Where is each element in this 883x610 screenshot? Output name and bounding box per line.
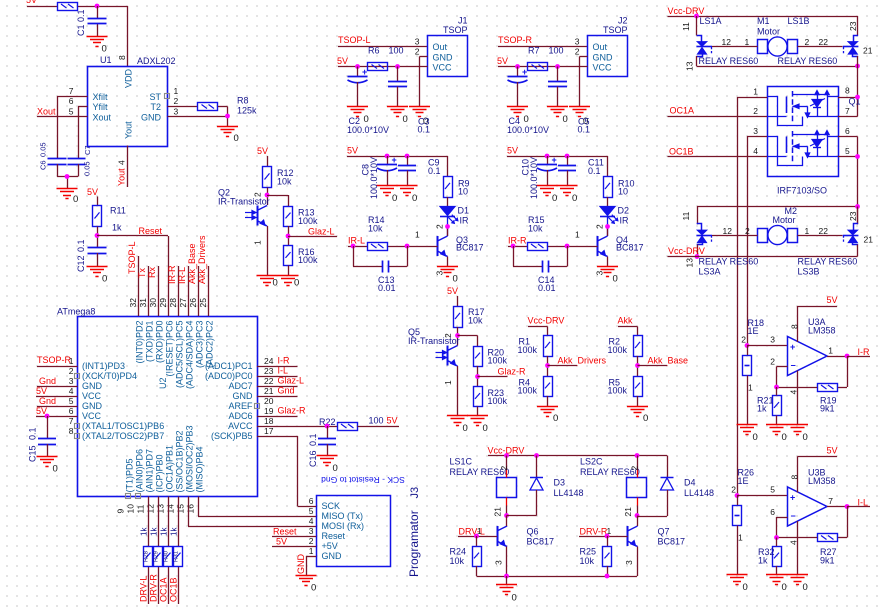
wire TSOP-R to J2 pin3: [498, 46, 588, 48]
svg-text:DRV-L: DRV-L: [139, 576, 149, 602]
svg-text:1: 1: [745, 37, 750, 47]
svg-text:2: 2: [309, 536, 314, 546]
svg-text:BC817: BC817: [616, 243, 644, 253]
svg-text:10: 10: [126, 504, 136, 514]
svg-text:5V: 5V: [337, 56, 348, 66]
svg-text:1: 1: [415, 230, 420, 240]
svg-text:25: 25: [198, 298, 208, 308]
svg-text:R31: R31: [174, 550, 180, 562]
svg-text:(OC1A)PB1: (OC1A)PB1: [165, 445, 175, 493]
node junction Akk_Drivers: [545, 363, 550, 368]
svg-text:3: 3: [69, 376, 74, 386]
svg-text:TSOP-R: TSOP-R: [498, 35, 533, 45]
svg-text:LM358: LM358: [808, 476, 836, 486]
ground Q4: [597, 266, 618, 268]
svg-text:100: 100: [389, 46, 404, 56]
svg-text:2: 2: [770, 357, 775, 367]
svg-text:Glaz-R: Glaz-R: [498, 367, 527, 377]
resistor R22: [338, 423, 358, 431]
ground C1: [87, 36, 108, 38]
svg-text:5: 5: [309, 506, 314, 516]
svg-text:LS2C: LS2C: [580, 457, 603, 467]
svg-text:10k: 10k: [528, 224, 543, 234]
op-amp U3A LM358: [788, 337, 828, 376]
svg-text:0: 0: [273, 278, 278, 289]
svg-text:23: 23: [848, 21, 858, 31]
svg-text:5V: 5V: [447, 286, 458, 296]
svg-text:ADC7: ADC7: [228, 381, 252, 391]
svg-text:20: 20: [264, 396, 274, 406]
svg-text:2: 2: [575, 47, 580, 57]
svg-text:0: 0: [294, 278, 299, 289]
wire Q1 pin7 stub: [838, 116, 858, 118]
svg-text:18: 18: [264, 416, 274, 426]
svg-text:0: 0: [453, 274, 458, 285]
svg-text:5V: 5V: [257, 146, 268, 156]
svg-text:RELAY RES60: RELAY RES60: [778, 56, 838, 66]
resistor R30 1k: [164, 547, 173, 567]
svg-text:J2: J2: [618, 16, 628, 26]
svg-text:LL4148: LL4148: [684, 488, 714, 498]
svg-text:ATmega8: ATmega8: [57, 307, 95, 317]
svg-text:Reset: Reset: [273, 527, 297, 537]
ground C15: [37, 456, 58, 458]
svg-text:0: 0: [743, 582, 748, 593]
wire 5V rail R10 block: [507, 156, 608, 158]
wire 5V to R17: [457, 296, 459, 306]
svg-text:1E: 1E: [738, 476, 749, 486]
svg-text:23: 23: [264, 366, 274, 376]
svg-text:1k: 1k: [140, 527, 149, 536]
svg-text:Glaz-L: Glaz-L: [278, 376, 305, 386]
svg-text:17: 17: [264, 426, 274, 436]
svg-text:14: 14: [166, 504, 176, 514]
svg-text:3: 3: [770, 335, 775, 345]
wire R12 to Q2 collector: [267, 188, 269, 206]
svg-text:2: 2: [731, 485, 736, 495]
svg-text:DRV-R: DRV-R: [149, 574, 159, 602]
svg-text:BC817: BC817: [456, 243, 484, 253]
node junction D2 cathode: [605, 224, 610, 229]
wire ATmega8 pin3 GND: [37, 386, 78, 388]
wire ATmega8 top pin 27: [188, 266, 190, 316]
ground J3: [296, 575, 317, 577]
svg-text:ADXL202: ADXL202: [137, 56, 176, 66]
svg-text:Reset: Reset: [322, 531, 346, 541]
transistor Q3 BC817: [437, 236, 439, 256]
node junction C1: [95, 4, 100, 9]
wire DRV-R to base: [579, 536, 628, 538]
pad ATmega8 pin20 AREF: [255, 404, 260, 409]
svg-text:100: 100: [549, 46, 564, 56]
wire ATmega8 pin24 I-R: [257, 366, 298, 368]
svg-text:(TXD)PD1: (TXD)PD1: [145, 321, 155, 363]
transistor Q7 BC817: [627, 526, 629, 546]
svg-text:(XCK/T0)PD4: (XCK/T0)PD4: [82, 371, 137, 381]
svg-text:IR-L: IR-L: [348, 236, 365, 246]
svg-text:3: 3: [595, 271, 605, 276]
wire ATmega8 top pin 29: [168, 236, 170, 316]
svg-text:0.1: 0.1: [76, 239, 86, 252]
svg-text:VCC: VCC: [82, 391, 102, 401]
svg-text:26: 26: [188, 298, 198, 308]
wire Q6 collector: [506, 516, 508, 527]
node junction D1 cathode: [445, 224, 450, 229]
svg-text:LL4148: LL4148: [554, 488, 584, 498]
svg-text:28: 28: [168, 298, 178, 308]
wire R24 bottom: [476, 566, 478, 576]
svg-text:100k: 100k: [298, 216, 318, 226]
wire J3 +5V: [272, 546, 316, 548]
svg-text:3: 3: [309, 526, 314, 536]
wire 5V rail R9 block: [347, 156, 448, 158]
resistor R27 feedback: [818, 534, 838, 542]
svg-text:100k: 100k: [518, 386, 538, 396]
svg-text:(SCK)PB5: (SCK)PB5: [211, 431, 253, 441]
svg-text:AVCC: AVCC: [228, 421, 253, 431]
wire C14 loop: [513, 246, 515, 267]
wire ATmega8 pin 14 to OC1B: [178, 497, 180, 547]
wire feedback to inverting input: [777, 387, 818, 389]
svg-text:Q7: Q7: [658, 527, 670, 537]
svg-text:0.01: 0.01: [378, 283, 396, 293]
svg-text:7: 7: [69, 416, 74, 426]
svg-text:R30: R30: [164, 550, 170, 562]
svg-text:0.1: 0.1: [28, 427, 38, 440]
wire pin6 rail down to M2: [857, 137, 859, 225]
node junction Q5 collector: [455, 333, 460, 338]
svg-text:5V: 5V: [87, 187, 98, 197]
svg-text:0: 0: [392, 193, 397, 204]
svg-text:C7: C7: [83, 145, 92, 155]
svg-text:J3: J3: [409, 487, 421, 499]
svg-text:0: 0: [613, 274, 618, 285]
svg-text:TSOP-L: TSOP-L: [338, 35, 371, 45]
svg-text:3: 3: [575, 37, 580, 47]
node junction IR-R left: [511, 244, 516, 249]
svg-text:M1: M1: [757, 16, 770, 26]
resistor R26 body: [733, 506, 742, 526]
svg-text:DRV-R: DRV-R: [580, 527, 608, 537]
wire Vcc-DRV top rail: [668, 16, 858, 18]
svg-text:(XTAL1/TOSC1)PB6: (XTAL1/TOSC1)PB6: [82, 421, 164, 431]
svg-text:R24: R24: [450, 547, 467, 557]
svg-text:U2: U2: [158, 377, 168, 389]
wire R22 to 5V: [358, 426, 400, 428]
svg-text:1k: 1k: [112, 223, 122, 233]
svg-text:Akk_Drivers: Akk_Drivers: [197, 235, 207, 284]
wire M2 top rail: [697, 206, 858, 208]
ground R32: [766, 574, 787, 576]
resistor R6: [368, 63, 388, 71]
svg-text:1: 1: [69, 356, 74, 366]
svg-text:7: 7: [828, 496, 833, 506]
svg-text:10: 10: [618, 187, 628, 197]
wire R20 to R23: [477, 366, 479, 387]
wire Akk to R2: [618, 326, 638, 328]
svg-text:R29: R29: [154, 550, 160, 562]
node junction inverting: [774, 385, 779, 390]
svg-text:3: 3: [624, 560, 634, 565]
connector J2 TSOP box: [588, 36, 628, 77]
wire ATmega8 pin15 MOSI to J3: [188, 497, 190, 527]
svg-text:(XTAL2/TOSC2)PB7: (XTAL2/TOSC2)PB7: [82, 431, 164, 441]
svg-text:0: 0: [403, 114, 408, 125]
wire TSOP-L to J1 pin3: [338, 46, 428, 48]
svg-text:+: +: [790, 342, 795, 352]
wire LS1A to M1: [712, 46, 758, 48]
wire Q3 collector stub: [447, 236, 449, 238]
wire Q1 pin6 stub: [838, 136, 858, 138]
node junction C6 C7: [65, 174, 70, 179]
diode D1 IR LED: [440, 207, 455, 216]
svg-text:(SS/OC1B)PB2: (SS/OC1B)PB2: [175, 430, 185, 492]
op-amp U1 ADXL202 box: [88, 67, 168, 147]
wire feedback U3A: [847, 356, 849, 387]
svg-text:Yfilt: Yfilt: [93, 102, 109, 112]
transistor Q4 BC817: [597, 236, 599, 256]
wire Q4 emitter to ground: [607, 257, 609, 267]
svg-text:0.1: 0.1: [428, 166, 441, 176]
svg-text:9: 9: [116, 509, 126, 514]
svg-text:T2: T2: [150, 102, 161, 112]
svg-text:2: 2: [499, 466, 509, 471]
wire R5 to ground: [637, 396, 639, 406]
ground C2: [347, 106, 368, 108]
resistor R19 feedback: [818, 384, 838, 392]
svg-text:LS1A: LS1A: [700, 16, 722, 26]
wire R16 to ground: [288, 266, 290, 276]
mosfet internal half 1: [767, 97, 778, 117]
svg-text:11: 11: [136, 504, 146, 513]
wire D1 to Q3 collector: [447, 216, 449, 236]
diode D2 IR LED: [600, 207, 615, 216]
node junction LS3A Vcc: [695, 254, 700, 259]
svg-text:4: 4: [69, 386, 74, 396]
svg-text:29: 29: [158, 298, 168, 308]
node junction base: [565, 244, 570, 249]
svg-text:OC1A: OC1A: [670, 106, 695, 116]
svg-text:Akk_Base: Akk_Base: [648, 356, 689, 366]
wire 5V to R11: [97, 197, 99, 206]
svg-text:Glaz-R: Glaz-R: [278, 406, 307, 416]
wire OC1B to pin4: [668, 156, 768, 158]
wire 5V rail J2: [498, 66, 588, 68]
connector J1 TSOP box: [428, 36, 468, 77]
svg-text:Akk_Drivers: Akk_Drivers: [558, 356, 607, 366]
wire M2 to LS3B: [798, 235, 843, 237]
svg-text:IR-Transistor: IR-Transistor: [408, 336, 460, 346]
svg-text:SCK: SCK: [322, 501, 341, 511]
svg-text:21: 21: [864, 235, 874, 245]
svg-text:125k: 125k: [237, 106, 257, 116]
ground R16: [278, 275, 299, 277]
svg-text:6: 6: [69, 96, 74, 106]
svg-text:RELAY RES60: RELAY RES60: [699, 56, 759, 66]
svg-text:LS3B: LS3B: [798, 267, 820, 277]
node junction LS1C top: [504, 453, 509, 458]
capacitor C4 polar: [517, 67, 519, 77]
node junction R26 input: [735, 493, 740, 498]
svg-text:GND: GND: [322, 551, 343, 561]
svg-text:22: 22: [819, 226, 829, 236]
svg-text:BC817: BC817: [527, 537, 555, 547]
svg-text:0: 0: [753, 432, 758, 443]
svg-text:11: 11: [681, 211, 691, 220]
resistor R8: [198, 103, 218, 111]
capacitor C10 polar: [547, 156, 549, 165]
svg-text:0: 0: [552, 193, 557, 204]
node junction LS2C top: [635, 453, 640, 458]
svg-text:Motor: Motor: [757, 27, 780, 37]
svg-text:10: 10: [458, 187, 468, 197]
svg-text:5: 5: [69, 396, 74, 406]
diode D4 LL4148: [661, 477, 674, 479]
svg-text:8: 8: [117, 55, 127, 60]
svg-text:8: 8: [790, 475, 800, 480]
svg-text:9k1: 9k1: [820, 556, 835, 566]
wire R17 to Q5 collector: [457, 327, 459, 346]
svg-text:0: 0: [782, 432, 787, 443]
svg-text:13: 13: [685, 258, 695, 268]
resistor R25: [607, 536, 609, 546]
svg-text:−: −: [791, 511, 796, 521]
svg-text:(MISO)PB4: (MISO)PB4: [195, 446, 205, 492]
node junction C10: [545, 154, 550, 159]
wire R1 to R4: [547, 356, 549, 376]
svg-text:5: 5: [69, 107, 74, 117]
pad pin1 ST unconnected: [165, 94, 170, 99]
wire Vcc-DRV M2 rail: [668, 256, 858, 258]
svg-text:1: 1: [253, 240, 263, 245]
svg-text:5V: 5V: [827, 295, 838, 305]
svg-text:1k: 1k: [170, 527, 179, 536]
wire Reset net: [97, 235, 168, 237]
resistor R15: [528, 243, 548, 251]
node junction C5: [555, 64, 560, 69]
svg-text:10k: 10k: [468, 316, 483, 326]
svg-text:2: 2: [630, 466, 640, 471]
svg-text:1: 1: [748, 383, 753, 393]
svg-text:10k: 10k: [277, 177, 292, 187]
svg-text:6: 6: [845, 126, 850, 136]
resistor R13: [284, 207, 293, 227]
resistor R2: [634, 336, 643, 357]
svg-text:5V: 5V: [497, 56, 508, 66]
svg-text:11: 11: [681, 22, 691, 31]
svg-text:22: 22: [819, 37, 829, 47]
wire R11 to C12: [97, 227, 99, 248]
svg-text:RELAY RES60: RELAY RES60: [699, 257, 759, 267]
wire feedback to inverting input: [777, 537, 818, 539]
wire J2 GND jog to ground: [580, 56, 588, 58]
svg-text:OC1B: OC1B: [169, 577, 179, 602]
svg-text:C16: C16: [308, 450, 318, 467]
svg-text:IR-Transistor: IR-Transistor: [218, 197, 270, 207]
wire junction to R13: [267, 195, 288, 197]
svg-text:2: 2: [69, 366, 74, 376]
node junction Q6 collector: [504, 513, 509, 518]
wire ATmega8 top pin 25: [208, 266, 210, 316]
ground J1: [409, 106, 430, 108]
wire LS1A pin13 to rail: [696, 56, 698, 66]
wire ATmega8 pin23 I-L: [257, 376, 298, 378]
svg-text:VDD: VDD: [124, 68, 134, 88]
node junction Reset: [95, 233, 100, 238]
node junction R18 input: [745, 343, 750, 348]
mosfet internal half 2: [767, 137, 778, 157]
svg-text:2: 2: [415, 47, 420, 57]
svg-text:7: 7: [69, 86, 74, 96]
svg-text:+: +: [392, 155, 397, 165]
wire R4 to ground: [547, 396, 549, 406]
wire junction to R20: [458, 335, 478, 337]
svg-text:100k: 100k: [518, 345, 538, 355]
svg-text:LM358: LM358: [808, 326, 836, 336]
ground C6 C7: [57, 188, 78, 190]
wire ATmega8 pin16 MISO to J3: [198, 497, 200, 517]
svg-text:LS1B: LS1B: [788, 16, 810, 26]
svg-text:(RXD)PD0: (RXD)PD0: [155, 321, 165, 364]
svg-text:+: +: [552, 155, 557, 165]
svg-text:Xout: Xout: [93, 112, 112, 122]
node junction Glaz-L: [286, 234, 291, 239]
svg-text:GND: GND: [593, 52, 614, 62]
resistor R24: [476, 536, 478, 546]
svg-text:Reset: Reset: [139, 226, 163, 236]
capacitor C2 polar: [357, 67, 359, 77]
svg-text:4: 4: [789, 390, 799, 395]
wire R8 to ground node: [218, 106, 228, 108]
wire U3A V+ to 5V: [797, 306, 799, 342]
resistor R0 (cut off at top): [58, 3, 78, 11]
wire RESET pin29 to Reset net: [97, 235, 99, 237]
svg-text:3: 3: [174, 107, 179, 117]
svg-text:0.05: 0.05: [83, 161, 92, 176]
wire ATmega8 pin22 Glaz-L: [257, 386, 298, 388]
svg-text:10k: 10k: [450, 556, 465, 566]
node junction C8: [385, 154, 390, 159]
ground U3A pin4: [787, 424, 808, 426]
capacitor C12: [88, 247, 107, 249]
capacitor C7: [68, 158, 86, 160]
node junction D3 top: [534, 453, 539, 458]
svg-text:Vcc-DRV: Vcc-DRV: [668, 6, 705, 16]
svg-text:Tx: Tx: [137, 268, 147, 278]
svg-text:MISO (Tx): MISO (Tx): [322, 511, 364, 521]
ic Q1 IRF7103 box: [768, 87, 839, 177]
svg-text:0: 0: [803, 582, 808, 593]
wire R18 junction to op-amp +: [747, 345, 788, 347]
svg-text:0: 0: [782, 582, 787, 593]
node junction LS1A: [694, 14, 699, 19]
svg-text:5V: 5V: [387, 416, 398, 426]
wire R13 to R16: [288, 226, 290, 246]
connector J3 Programator box: [317, 496, 391, 567]
svg-text:C15: C15: [28, 445, 38, 462]
node junction base: [405, 244, 410, 249]
wire Q1 pin3 stub: [747, 136, 767, 138]
ground Q5: [447, 415, 468, 417]
resistor R7: [528, 63, 548, 71]
svg-text:100k: 100k: [298, 255, 318, 265]
wire ATmega8 pin4 VCC: [36, 396, 78, 398]
svg-text:1: 1: [575, 230, 580, 240]
svg-text:0.1: 0.1: [578, 125, 591, 135]
svg-text:AREF: AREF: [228, 401, 253, 411]
svg-text:1k: 1k: [758, 556, 768, 566]
resistor R29 1k: [154, 547, 163, 567]
